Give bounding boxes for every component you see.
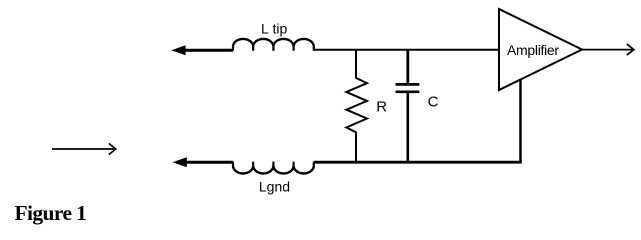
svg-text:Amplifier: Amplifier bbox=[507, 42, 559, 58]
svg-text:Figure 1: Figure 1 bbox=[15, 201, 87, 225]
svg-text:C: C bbox=[428, 93, 439, 110]
svg-text:R: R bbox=[376, 99, 387, 116]
svg-text:Lgnd: Lgnd bbox=[259, 179, 290, 195]
svg-text:tip: tip bbox=[273, 20, 288, 36]
svg-text:L: L bbox=[261, 20, 269, 36]
